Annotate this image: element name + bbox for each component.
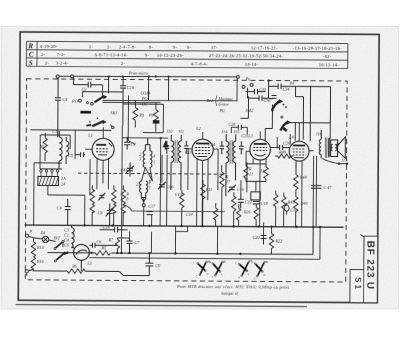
resistor R6 horizontal [67,264,149,276]
terminal P2 [25,269,33,273]
svg-text:C24: C24 [208,142,215,147]
switch SM2 arm 1 [271,100,287,112]
antenna resistor [43,133,48,161]
hatched dropper block [38,176,59,185]
dropper coil tapped [71,225,74,248]
svg-text:J11: J11 [178,129,184,134]
second return rail [89,225,320,259]
svg-text:R6: R6 [71,264,78,269]
switch SK1 wafer A [86,96,107,105]
wire: bus to lower rail verticals [175,226,217,254]
capacitor C9 [145,253,153,275]
tube socket pinout 3 [235,259,252,280]
svg-text:R9: R9 [138,113,145,118]
svg-text:17-: 17- [211,45,218,50]
svg-text:P4: P4 [289,81,295,86]
svg-text:COM-: COM- [141,91,152,96]
svg-text:C21: C21 [241,133,248,138]
svg-text:B: B [224,260,226,264]
wire: top right rails [295,86,310,141]
terminal arrow at SK1 [110,124,114,128]
capacitor C7 [126,238,132,253]
svg-text:9-: 9- [173,45,178,50]
table row R values [40,44,342,51]
trimmer C46 [158,182,166,190]
switch INT [52,235,64,249]
svg-text:R: R [27,42,33,50]
tube L3 [250,139,271,160]
tube L1 leads [85,127,109,189]
resistor R13 under T3 [219,165,224,226]
svg-text:SM2: SM2 [245,108,253,113]
svg-text:R1: R1 [39,144,45,149]
dropper taps labels [64,228,70,248]
svg-text:2-: 2- [121,61,126,66]
svg-text:3: 3 [139,157,141,162]
wire: prise micro line [56,74,239,79]
svg-text:C: C [29,51,34,59]
svg-text:14-14-: 14-14- [245,62,259,67]
revision box S 1 [350,270,364,303]
svg-text:P.O: P.O [71,99,78,104]
svg-text:2-: 2- [45,60,50,65]
svg-text:PO: PO [141,96,148,101]
trimmer C near L1 [98,193,105,201]
svg-text:3-2-4-: 3-2-4- [56,60,69,65]
resistor R48 horizontal [275,154,293,158]
svg-text:12: 12 [260,168,264,173]
svg-text:2-: 2- [89,44,94,49]
svg-text:C14: C14 [103,224,110,229]
chassis dashed boundary [25,79,347,282]
main HT bus [25,225,344,227]
svg-text:R48: R48 [278,150,287,155]
trimmer C41 [126,162,134,176]
pot box [251,192,261,200]
svg-text:C4: C4 [57,206,62,211]
svg-text:4-7-8-4-: 4-7-8-4- [191,61,208,66]
svg-text:C: C [254,276,256,280]
svg-text:P: P [29,229,33,234]
coil tap marks [139,152,155,165]
svg-text:C: C [196,274,198,278]
tube L4 leads [289,123,314,227]
capacitor C16 [120,86,126,88]
labels COM PO OC [140,91,151,107]
bottom note text [176,284,290,296]
capacitor C14 [100,227,128,233]
resistor value block [153,120,160,123]
svg-text:J10: J10 [166,129,173,134]
capacitor C36 [249,95,269,101]
switch SK1 wafer B [86,117,106,126]
scattered tiny labels [39,79,295,218]
T2 side capacitors [165,141,189,154]
tube L2 leads [188,132,219,226]
ganged switch dashed link [78,173,225,174]
tube socket pinout 4 [251,260,268,281]
svg-text:C28: C28 [228,122,236,127]
svg-text:P9: P9 [148,113,155,118]
terminal P.O [71,99,81,104]
antenna coil L0 [59,131,62,169]
svg-text:-42-: -42- [323,54,332,59]
resistor R23 [273,191,278,227]
svg-text:R16: R16 [36,259,45,264]
grid cap C2 trimmer [75,152,85,157]
svg-text:10-13-14-: 10-13-14- [319,62,340,67]
svg-text:C17: C17 [148,204,156,209]
lower bus with series resistor R5 [47,225,313,256]
tube socket pinout 2 [209,260,226,280]
resistor R16 [231,192,236,226]
svg-text:Réd: Réd [205,98,213,103]
IF transformer T2 [171,135,181,190]
svg-text:Prise micro: Prise micro [128,70,149,75]
resistor mid d [213,203,218,226]
tube L4 [289,141,309,161]
wire: left lower links [34,163,85,225]
resistor R19 [153,103,158,132]
svg-text:C19: C19 [186,212,194,217]
svg-text:J15: J15 [233,129,239,134]
svg-text:2-: 2- [41,52,46,57]
svg-text:-13-16-28-17-18-21-16-: -13-16-28-17-18-21-16- [293,45,342,50]
speaker [322,137,348,165]
tube L2 [192,139,213,160]
svg-text:f: f [235,261,236,265]
capacitor C26 [272,95,277,98]
grid wire with capacitor C28 [231,125,247,135]
svg-text:8-: 8- [149,44,154,49]
svg-text:B: B [266,260,268,264]
junction dot top dashed [267,79,269,81]
svg-text:14-12-23-26-: 14-12-23-26- [157,53,184,58]
IF transformer T3 [226,134,236,196]
resistor under L1 a [90,185,95,225]
trimmer capacitor C16b [228,185,236,193]
resistor R14 [31,238,44,257]
labels Red Musique Grave PU [205,96,233,114]
coupling coil [66,137,69,164]
wire: bottom mid links [121,226,151,254]
title box BF 223 U [364,236,378,303]
svg-text:C18: C18 [261,201,269,206]
capacitor C20 [260,235,266,244]
svg-text:R5: R5 [100,245,106,250]
svg-text:9-: 9- [145,53,150,58]
parts table grid [26,41,347,68]
tube L3 leads [246,131,281,226]
diode arrow symbol [163,141,168,150]
svg-text:L2: L2 [195,126,200,131]
svg-text:24: 24 [61,182,65,187]
corner diagonal [360,235,364,238]
resistor R9 [133,101,138,128]
svg-text:C13: C13 [175,192,182,197]
svg-text:C16: C16 [127,85,135,90]
junction dots on micro line [108,75,170,78]
pilot lamp E4 [39,230,48,242]
svg-text:R14: R14 [36,245,44,250]
electrolytic C10 [284,203,289,215]
oscillator coil upper pair [143,138,152,168]
svg-text:R44: R44 [299,175,307,180]
svg-text:6-8-71-13-4-14-: 6-8-71-13-4-14- [95,52,128,57]
terminal PU circles [242,76,253,88]
svg-text:C4: C4 [62,97,67,102]
wire: SM2 area [240,80,330,140]
svg-text:C11: C11 [185,150,192,155]
labels above T2 [166,129,184,134]
svg-text:L1: L1 [87,133,92,138]
svg-text:1: 1 [153,160,155,165]
resistor R26 [236,204,241,226]
terminals above block [40,170,59,177]
capacitor C4 lower-left [65,199,71,225]
svg-text:E4: E4 [40,230,46,235]
tube L5 rectifier [73,244,89,267]
svg-text:27-23-24-26-25-32-19-52-50-34-: 27-23-24-26-25-32-19-52-50-34-24- [209,53,284,59]
svg-text:C35: C35 [259,87,266,92]
wire: lamp circuit [27,238,82,276]
bus jog [176,226,188,232]
capacitor C51 [124,138,130,150]
oscillator top wire [122,137,169,226]
tube socket pinout 1 [193,259,210,278]
resistor R44 [294,163,299,197]
wire: SK1 area links [30,76,237,140]
svg-text:7-2-: 7-2- [57,52,66,57]
svg-text:4: 4 [153,154,155,159]
resistor R45 [281,193,286,227]
resistor R40 [293,197,298,227]
labels above T3 [221,129,239,134]
capacitor C22 [238,194,244,208]
svg-text:12-17-16-21-: 12-17-16-21- [251,45,278,50]
svg-text:PU.: PU. [218,108,226,113]
table row S values [45,60,340,67]
svg-text:Grave: Grave [218,102,229,107]
svg-text:J14: J14 [221,129,227,134]
svg-text:C10: C10 [290,208,298,213]
switch tap selector [54,252,67,262]
resistor R21 [244,164,249,182]
svg-text:J17: J17 [341,157,348,162]
tube L1 [92,138,114,160]
svg-text:C46: C46 [166,184,174,189]
capacitor C6 [89,243,117,248]
svg-text:SK1: SK1 [110,110,117,115]
svg-text:C5: C5 [68,153,73,158]
oscillator link trapezoid [141,167,152,181]
HT rail double line [313,156,316,227]
lower left: terminal P1 [25,229,33,238]
svg-text:R22: R22 [274,239,282,244]
svg-text:C20: C20 [253,235,261,240]
svg-text:21: 21 [249,171,253,176]
capacitor C35 [246,89,266,95]
svg-text:C34: C34 [283,87,290,92]
wire: drops from micro line [55,76,169,138]
coil slug (iron core bar) [80,111,91,114]
wire: mid verticals [75,95,331,239]
svg-text:R40: R40 [300,201,309,206]
wire: antenna box [40,135,70,169]
svg-text:BF 223 U: BF 223 U [364,241,375,290]
svg-text:L5: L5 [86,261,91,266]
resistor mid b [179,190,184,226]
svg-text:2-4-7-8-: 2-4-7-8- [119,44,136,49]
svg-text:L4: L4 [288,135,293,140]
resistor R27 [254,204,259,227]
svg-text:C3: C3 [52,129,57,134]
resistor R16 lower [29,257,44,272]
svg-text:R26: R26 [243,209,252,214]
oscillator coil return V [141,196,146,226]
AVC line [123,205,225,212]
svg-text:S 1: S 1 [353,277,362,290]
table row labels R C S [27,42,34,67]
capacitor C47 [311,185,322,188]
capacitor C8 trimmer [106,203,114,225]
svg-text:Musique: Musique [217,96,233,101]
svg-text:C2: C2 [82,87,87,92]
capacitor C19 [147,212,153,215]
svg-text:marqué ⊙: marqué ⊙ [221,291,238,296]
capacitor C18 [253,201,260,204]
svg-text:INT: INT [53,235,61,240]
outer frame [18,32,379,303]
oscillator coil lower pair [139,181,147,203]
resistor mid a [121,185,129,225]
wire: cathode box [246,164,266,192]
svg-text:S: S [29,59,33,67]
resistor mid c [200,180,212,226]
capacitor C34 [269,83,331,89]
svg-text:Pu: Pu [245,76,251,81]
band box outline [122,104,163,133]
table row C values [41,52,332,59]
resistor R12 [264,164,269,182]
capacitor C2 top left [74,82,103,88]
switch SM2 arm 2 [280,116,290,131]
junction dots on buses [66,224,321,256]
T3 side capacitors [220,141,244,154]
output transformer [319,130,330,159]
coupling capacitor C30 [280,145,290,150]
resistor R7 vertical [115,238,129,253]
svg-text:2-: 2- [107,44,112,49]
svg-text:4-19-20-: 4-19-20- [40,44,58,49]
svg-text:J16: J16 [316,131,323,136]
svg-text:R45: R45 [287,200,295,205]
svg-text:R11: R11 [205,187,212,192]
bottom rule line [16,305,307,307]
resistor R22 [269,226,282,254]
resistor under L1 b [111,185,116,225]
svg-text:C: C [212,275,214,279]
svg-text:R7: R7 [107,237,114,242]
svg-text:C: C [248,272,250,276]
svg-text:9-: 9- [187,45,192,50]
svg-text:C.47: C.47 [323,185,332,190]
svg-text:2A: 2A [61,176,66,181]
